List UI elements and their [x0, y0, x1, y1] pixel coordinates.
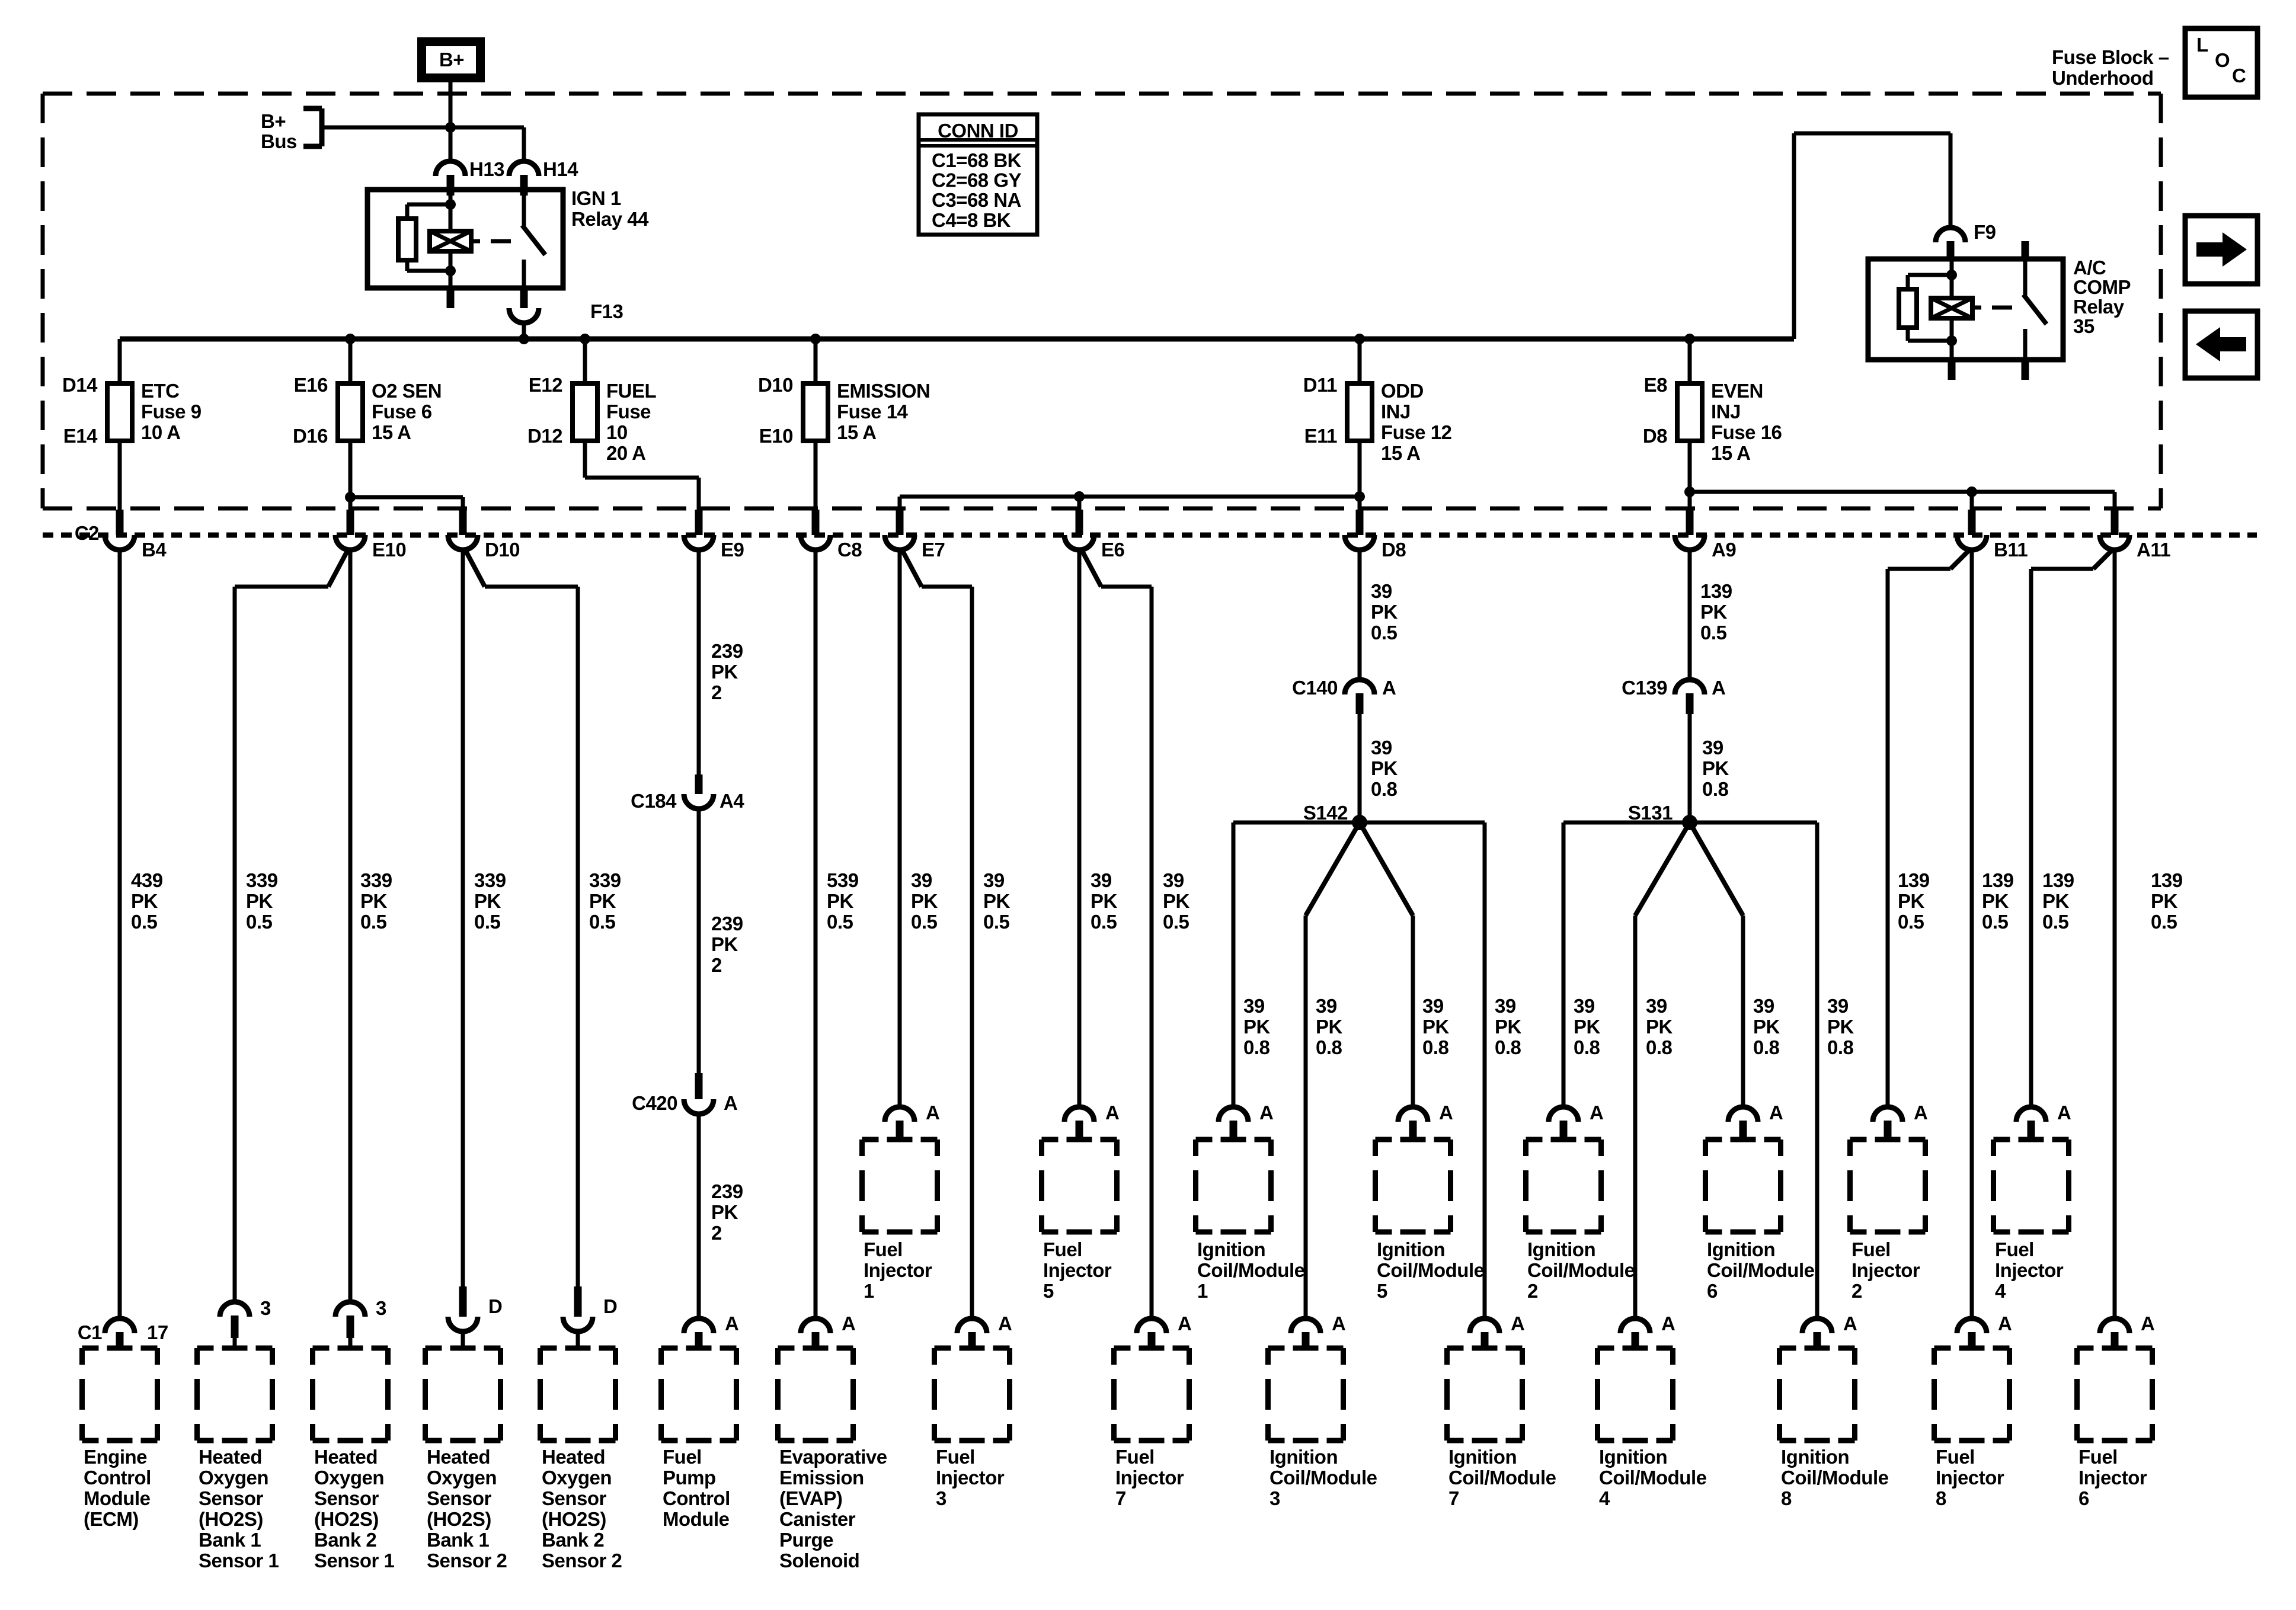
- pin stub AC coil ground: [1948, 360, 1956, 380]
- svg-text:ETC: ETC: [141, 380, 180, 402]
- svg-text:Module: Module: [84, 1487, 151, 1509]
- wire C139 to S131: [1688, 714, 1692, 822]
- svg-text:Coil/Module: Coil/Module: [1599, 1467, 1707, 1489]
- svg-text:D16: D16: [293, 425, 328, 447]
- wire F13 to bus: [522, 323, 526, 339]
- node bus fuse5: [1354, 334, 1365, 344]
- wire relay coil feed: [449, 190, 453, 231]
- svg-text:PK: PK: [2151, 890, 2178, 912]
- svg-text:339: 339: [360, 869, 392, 891]
- svg-text:0.5: 0.5: [474, 911, 501, 933]
- fuse F14_EMIS EMISSION: [803, 383, 828, 441]
- svg-text:0.8: 0.8: [1371, 778, 1398, 800]
- svg-text:8: 8: [1936, 1487, 1946, 1509]
- wire bus to fuse FUEL: [583, 339, 587, 383]
- svg-text:1: 1: [1197, 1280, 1208, 1302]
- svg-text:Engine: Engine: [84, 1446, 147, 1468]
- connector row pin A11: [2111, 510, 2119, 535]
- connector pin 3 of HO2S Bank 1 Sensor 1: [220, 1302, 250, 1317]
- wire E10 straight: [348, 550, 353, 1302]
- connector H14: [509, 161, 539, 176]
- svg-text:PK: PK: [246, 890, 273, 912]
- svg-text:0.5: 0.5: [1091, 911, 1117, 933]
- svg-text:Injector: Injector: [936, 1467, 1005, 1489]
- svg-text:E12: E12: [529, 374, 562, 396]
- svg-text:S142: S142: [1303, 802, 1348, 824]
- svg-text:B11: B11: [1994, 539, 2028, 561]
- wire D10 fan diagonal: [465, 550, 485, 587]
- wire E7 straight: [898, 550, 902, 1107]
- svg-text:H13: H13: [469, 158, 504, 180]
- svg-text:0.5: 0.5: [246, 911, 273, 933]
- svg-text:Fuel: Fuel: [663, 1446, 702, 1468]
- svg-text:Oxygen: Oxygen: [199, 1467, 268, 1489]
- svg-text:39: 39: [1422, 995, 1444, 1017]
- svg-text:PK: PK: [983, 890, 1011, 912]
- connector A of Ignition Coil/Module 2: [1549, 1107, 1578, 1122]
- component box Evaporative Emission (EVAP): [778, 1346, 795, 1351]
- svg-text:39: 39: [983, 869, 1005, 891]
- relay coil K2: [1931, 298, 1972, 318]
- connector row pin E7: [896, 510, 904, 535]
- svg-text:Ignition: Ignition: [1599, 1446, 1667, 1468]
- connector row pin E6: [1076, 510, 1083, 535]
- svg-text:2: 2: [711, 681, 722, 703]
- wire resistor bottom link: [405, 260, 410, 271]
- svg-text:Relay 44: Relay 44: [571, 208, 649, 230]
- wire ODD INJ fuse down: [1358, 441, 1362, 497]
- svg-text:PK: PK: [911, 890, 938, 912]
- svg-text:15 A: 15 A: [372, 421, 411, 443]
- svg-text:B4: B4: [142, 539, 167, 561]
- svg-text:C8: C8: [837, 539, 862, 561]
- wire E6 drop: [1077, 497, 1082, 511]
- connector C420 A: [695, 1073, 703, 1099]
- node ODD split: [1354, 491, 1365, 502]
- component box Fuel Injector 5: [1042, 1137, 1059, 1142]
- wire bus to fuse ETC: [118, 339, 122, 383]
- svg-text:PK: PK: [711, 661, 738, 683]
- wire O2 fuse down: [348, 441, 353, 497]
- svg-text:Injector: Injector: [1043, 1259, 1112, 1281]
- svg-text:39: 39: [1163, 869, 1184, 891]
- svg-text:0.8: 0.8: [1243, 1036, 1270, 1058]
- svg-text:D12: D12: [527, 425, 562, 447]
- component box Fuel Injector 4: [1994, 1137, 2010, 1142]
- svg-text:Relay: Relay: [2073, 296, 2125, 318]
- svg-text:A: A: [1511, 1313, 1524, 1334]
- connector C1 pin 17: [105, 1318, 135, 1333]
- connector H13: [436, 161, 465, 176]
- relay K1 IGN 1 Relay 44 box: [367, 190, 563, 288]
- svg-text:139: 139: [1898, 869, 1930, 891]
- svg-text:Fuel: Fuel: [1043, 1238, 1082, 1260]
- wire AC coil feed: [1950, 259, 1954, 298]
- fuse F9_ETC ETC: [107, 383, 132, 441]
- svg-text:PK: PK: [1982, 890, 2009, 912]
- svg-text:2: 2: [711, 954, 722, 976]
- relay coil K1: [430, 231, 471, 251]
- component box Fuel Injector 6: [2077, 1346, 2094, 1351]
- svg-text:Injector: Injector: [1851, 1259, 1920, 1281]
- node B11 tap: [1966, 486, 1977, 497]
- fuse F16_EVEN EVEN: [1677, 383, 1702, 441]
- svg-text:A/C: A/C: [2073, 257, 2106, 279]
- svg-text:C184: C184: [631, 790, 677, 812]
- component box HO2S Bank 1 Sensor 2: [426, 1346, 442, 1351]
- svg-text:C139: C139: [1622, 677, 1667, 699]
- component box Ignition Coil/Module 3: [1268, 1346, 1285, 1351]
- fuse F10_FUEL FUEL: [573, 383, 597, 441]
- svg-text:Coil/Module: Coil/Module: [1527, 1259, 1635, 1281]
- connector F13: [509, 308, 539, 323]
- arrow box right: [2185, 216, 2257, 284]
- svg-text:239: 239: [711, 1180, 743, 1202]
- svg-text:0.5: 0.5: [1898, 911, 1924, 933]
- svg-text:Ignition: Ignition: [1527, 1238, 1595, 1260]
- connector A of Fuel Injector: [957, 1318, 987, 1333]
- node AC coil bottom: [1946, 335, 1957, 346]
- svg-text:A: A: [1769, 1102, 1783, 1124]
- node relay coil bottom: [445, 265, 456, 276]
- svg-text:A: A: [2141, 1313, 2154, 1334]
- connector pin D of HO2S Bank 1 Sensor 2: [459, 1286, 467, 1317]
- svg-text:A: A: [1332, 1313, 1345, 1334]
- wire E9 col lower: [697, 1114, 701, 1318]
- svg-text:5: 5: [1043, 1280, 1054, 1302]
- svg-text:139: 139: [2042, 869, 2074, 891]
- svg-text:A: A: [1998, 1313, 2012, 1334]
- wire EMISSION fuse to C8: [814, 441, 818, 511]
- connector A of Ignition Coil/Module 6: [1728, 1107, 1758, 1122]
- svg-text:0.5: 0.5: [2151, 911, 2177, 933]
- svg-text:ODD: ODD: [1381, 380, 1424, 402]
- svg-text:PK: PK: [589, 890, 616, 912]
- svg-text:S131: S131: [1628, 802, 1673, 824]
- component box Ignition Coil/Module 5: [1376, 1137, 1392, 1142]
- wire to H13: [449, 127, 453, 161]
- wire ETC fuse to C2: [118, 441, 122, 511]
- svg-text:A: A: [842, 1313, 855, 1334]
- svg-text:0.5: 0.5: [827, 911, 853, 933]
- svg-text:339: 339: [474, 869, 506, 891]
- wire S142 branch far-left: [1233, 821, 1360, 825]
- wire B11 fan diagonal: [1950, 550, 1969, 569]
- svg-text:0.5: 0.5: [131, 911, 158, 933]
- svg-text:D8: D8: [1382, 539, 1406, 561]
- wire B+ down: [449, 82, 453, 127]
- svg-text:Fuel: Fuel: [1936, 1446, 1975, 1468]
- svg-text:1: 1: [864, 1280, 874, 1302]
- component box Fuel Injector 8: [1934, 1346, 1951, 1351]
- svg-text:Canister: Canister: [779, 1508, 856, 1530]
- svg-text:E8: E8: [1644, 374, 1668, 396]
- svg-text:PK: PK: [2042, 890, 2070, 912]
- svg-text:Sensor: Sensor: [314, 1487, 379, 1509]
- svg-text:A: A: [1105, 1102, 1119, 1124]
- component box HO2S Bank 2 Sensor 2: [541, 1346, 557, 1351]
- svg-text:A4: A4: [720, 790, 744, 812]
- svg-text:Control: Control: [663, 1487, 730, 1509]
- svg-text:D: D: [603, 1295, 617, 1317]
- wire C8 column: [814, 550, 818, 1318]
- wire B11 straight: [1970, 550, 1974, 1318]
- svg-text:39: 39: [1091, 869, 1112, 891]
- connector A of Fuel Injector: [1957, 1318, 1987, 1333]
- node bus fuse3: [580, 334, 590, 344]
- svg-text:PK: PK: [1700, 601, 1728, 623]
- svg-text:0.8: 0.8: [1495, 1036, 1521, 1058]
- svg-text:(HO2S): (HO2S): [427, 1508, 491, 1530]
- wire S142 branch mid-left: [1306, 822, 1360, 916]
- svg-text:0.5: 0.5: [2042, 911, 2069, 933]
- wire S142 branch mid-right: [1360, 822, 1413, 916]
- svg-text:C: C: [2232, 65, 2246, 87]
- svg-text:B+: B+: [439, 49, 464, 71]
- svg-text:Fuel: Fuel: [864, 1238, 903, 1260]
- svg-text:339: 339: [246, 869, 278, 891]
- connector C139 A: [1675, 680, 1705, 694]
- wire E7 fan diagonal: [902, 550, 922, 587]
- svg-text:0.5: 0.5: [1163, 911, 1189, 933]
- svg-text:CONN ID: CONN ID: [938, 120, 1018, 142]
- svg-text:Injector: Injector: [864, 1259, 932, 1281]
- svg-text:Coil/Module: Coil/Module: [1448, 1467, 1556, 1489]
- svg-text:3: 3: [260, 1297, 271, 1319]
- svg-text:Bank 2: Bank 2: [542, 1529, 604, 1551]
- svg-text:Coil/Module: Coil/Module: [1781, 1467, 1889, 1489]
- component box Ignition Coil/Module 6: [1706, 1137, 1722, 1142]
- svg-text:A: A: [1382, 677, 1396, 699]
- svg-text:PK: PK: [474, 890, 501, 912]
- svg-text:A: A: [1661, 1313, 1675, 1334]
- svg-text:39: 39: [1702, 737, 1723, 758]
- svg-text:0.5: 0.5: [911, 911, 938, 933]
- svg-text:0.5: 0.5: [589, 911, 616, 933]
- LOC box: [2185, 28, 2257, 97]
- svg-text:2: 2: [1527, 1280, 1538, 1302]
- svg-text:D14: D14: [62, 374, 98, 396]
- wire S131 branch mid-left: [1635, 822, 1690, 916]
- wire E6 fan diagonal: [1082, 550, 1101, 587]
- svg-text:39: 39: [1316, 995, 1337, 1017]
- svg-text:Ignition: Ignition: [1781, 1446, 1849, 1468]
- svg-text:A: A: [1439, 1102, 1453, 1124]
- svg-text:239: 239: [711, 913, 743, 934]
- svg-text:0.8: 0.8: [1316, 1036, 1342, 1058]
- wire B+ bus horizontal: [322, 126, 524, 130]
- component box HO2S Bank 1 Sensor 1: [197, 1346, 214, 1351]
- node bus fuse6: [1684, 334, 1695, 344]
- wire E10 drop: [348, 497, 353, 511]
- svg-text:39: 39: [1827, 995, 1849, 1017]
- svg-text:Heated: Heated: [542, 1446, 605, 1468]
- svg-text:(HO2S): (HO2S): [314, 1508, 379, 1530]
- relay K2 A/C COMP Relay 35 box: [1868, 259, 2063, 360]
- wire S131 branch far-right: [1690, 821, 1817, 825]
- svg-text:Fuse 12: Fuse 12: [1381, 421, 1452, 443]
- svg-text:Bank 2: Bank 2: [314, 1529, 376, 1551]
- connector F9: [1936, 228, 1965, 242]
- svg-text:39: 39: [1371, 580, 1392, 602]
- wire bus to fuse EMISSION: [814, 339, 818, 383]
- svg-text:D8: D8: [1643, 425, 1667, 447]
- fuse F6_O2 O2 SEN: [338, 383, 363, 441]
- relay switch fixed contact: [522, 190, 526, 227]
- fuse block underhood dashed border: [43, 92, 2161, 96]
- svg-text:E16: E16: [294, 374, 328, 396]
- svg-text:3: 3: [376, 1297, 386, 1319]
- connector row pin A9: [1686, 510, 1694, 535]
- wire S131 branch far-left: [1563, 821, 1690, 825]
- svg-text:O2 SEN: O2 SEN: [372, 380, 442, 402]
- svg-text:INJ: INJ: [1711, 401, 1741, 422]
- wire EVEN split horizontal: [1690, 490, 2115, 494]
- svg-text:0.5: 0.5: [1982, 911, 2009, 933]
- svg-text:C140: C140: [1292, 677, 1338, 699]
- component box Engine Control Module: [82, 1346, 99, 1351]
- svg-text:7: 7: [1448, 1487, 1459, 1509]
- svg-text:Ignition: Ignition: [1707, 1238, 1775, 1260]
- svg-text:Fuse 6: Fuse 6: [372, 401, 432, 422]
- pin 87 stub: [520, 288, 528, 308]
- AC pin stub lower: [2022, 360, 2029, 380]
- wire bus to fuse O2 SEN: [348, 339, 353, 383]
- svg-text:Sensor 1: Sensor 1: [314, 1550, 395, 1571]
- svg-text:139: 139: [1700, 580, 1732, 602]
- svg-text:0.8: 0.8: [1422, 1036, 1449, 1058]
- component box HO2S Bank 2 Sensor 1: [313, 1346, 330, 1351]
- svg-text:C1: C1: [78, 1321, 102, 1343]
- resistor R relay coil suppression: [398, 219, 416, 260]
- svg-text:E10: E10: [372, 539, 406, 561]
- svg-text:Evaporative: Evaporative: [779, 1446, 887, 1468]
- wire D8 drop: [1358, 497, 1362, 511]
- fuse F12_ODD ODD: [1347, 383, 1372, 441]
- svg-text:20 A: 20 A: [606, 442, 645, 464]
- wire E9 column: [697, 550, 701, 774]
- svg-text:PK: PK: [1422, 1016, 1450, 1038]
- node AC coil top: [1946, 270, 1957, 280]
- svg-text:A: A: [1259, 1102, 1273, 1124]
- svg-text:A9: A9: [1712, 539, 1736, 561]
- svg-text:A: A: [725, 1313, 738, 1334]
- wire A11 fan diagonal: [2093, 550, 2112, 569]
- svg-text:C2=68 GY: C2=68 GY: [932, 169, 1021, 191]
- splice S142: [1352, 815, 1367, 830]
- connector C140 A: [1345, 680, 1374, 694]
- connector A of Evaporative Emission: [801, 1318, 830, 1333]
- svg-text:PK: PK: [1316, 1016, 1343, 1038]
- svg-text:4: 4: [1995, 1280, 2006, 1302]
- wire D8 column: [1358, 550, 1362, 677]
- svg-text:Ignition: Ignition: [1377, 1238, 1445, 1260]
- svg-text:Solenoid: Solenoid: [779, 1550, 859, 1571]
- pin 85 stub below relay: [447, 288, 455, 308]
- svg-text:F13: F13: [590, 300, 623, 322]
- component box Fuel Injector 2: [1850, 1137, 1867, 1142]
- connector A of Ignition Coil/Module: [1802, 1318, 1832, 1333]
- svg-text:10: 10: [606, 421, 628, 443]
- svg-text:Sensor: Sensor: [542, 1487, 607, 1509]
- wire C140 to S142: [1358, 714, 1362, 822]
- connector A of Fuel Injector 1: [885, 1107, 914, 1122]
- svg-text:(HO2S): (HO2S): [199, 1508, 263, 1530]
- svg-text:PK: PK: [1898, 890, 1925, 912]
- svg-text:PK: PK: [360, 890, 388, 912]
- svg-text:A: A: [998, 1313, 1012, 1334]
- relay actuation dashed link: [471, 239, 480, 244]
- node bus fuse2: [345, 334, 356, 344]
- connector A of Fuel Injector 4: [2016, 1107, 2046, 1122]
- svg-text:EMISSION: EMISSION: [837, 380, 930, 402]
- node E6 tap: [1074, 491, 1085, 502]
- connector row pin D10: [459, 510, 467, 535]
- wire ODD split horizontal: [900, 495, 1360, 499]
- component box Ignition Coil/Module 4: [1598, 1346, 1614, 1351]
- connector A of Ignition Coil/Module 5: [1398, 1107, 1428, 1122]
- svg-text:PK: PK: [1827, 1016, 1854, 1038]
- svg-text:139: 139: [1982, 869, 2014, 891]
- connector A of Fuel Injector: [1137, 1318, 1166, 1333]
- svg-text:39: 39: [1753, 995, 1774, 1017]
- svg-text:FUEL: FUEL: [606, 380, 657, 402]
- svg-text:0.5: 0.5: [1371, 622, 1398, 644]
- AC relay dashed link: [1972, 306, 1981, 310]
- wire AC resistor bottom: [1906, 328, 1910, 341]
- svg-text:4: 4: [1599, 1487, 1610, 1509]
- svg-text:39: 39: [1574, 995, 1595, 1017]
- wire S142 branch far-right: [1360, 821, 1485, 825]
- svg-text:7: 7: [1115, 1487, 1126, 1509]
- svg-text:PK: PK: [1702, 757, 1729, 779]
- svg-text:C1=68 BK: C1=68 BK: [932, 149, 1022, 171]
- component box Ignition Coil/Module 2: [1526, 1137, 1543, 1142]
- svg-text:Ignition: Ignition: [1197, 1238, 1265, 1260]
- B+ power terminal: [417, 37, 485, 82]
- svg-text:B+: B+: [261, 110, 286, 132]
- svg-text:PK: PK: [131, 890, 158, 912]
- svg-text:E9: E9: [721, 539, 744, 561]
- svg-text:Injector: Injector: [1936, 1467, 2004, 1489]
- connector A of Fuel Injector 5: [1064, 1107, 1094, 1122]
- svg-text:PK: PK: [1091, 890, 1118, 912]
- CONN ID table: [919, 114, 1037, 235]
- svg-text:Injector: Injector: [1115, 1467, 1184, 1489]
- relay switch lower contact: [522, 260, 526, 288]
- svg-text:39: 39: [911, 869, 932, 891]
- wire resistor top link: [407, 203, 450, 207]
- connector row pin E9: [695, 510, 703, 535]
- svg-text:5: 5: [1377, 1280, 1387, 1302]
- svg-text:Sensor 1: Sensor 1: [199, 1550, 279, 1571]
- wire A9 drop: [1688, 492, 1692, 511]
- svg-text:COMP: COMP: [2073, 276, 2131, 298]
- wire E9 col mid: [697, 809, 701, 1073]
- svg-text:15 A: 15 A: [1381, 442, 1420, 464]
- connector row pin B4: [116, 510, 124, 535]
- svg-text:Sensor: Sensor: [199, 1487, 264, 1509]
- svg-text:E11: E11: [1304, 425, 1338, 447]
- svg-text:Fuse 16: Fuse 16: [1711, 421, 1782, 443]
- connector A of Ignition Coil/Module: [1620, 1318, 1650, 1333]
- component box Ignition Coil/Module 8: [1780, 1346, 1796, 1351]
- wire AC resistor top link: [1908, 273, 1952, 277]
- component box Fuel Pump Control: [661, 1346, 678, 1351]
- svg-text:Bank 1: Bank 1: [427, 1529, 489, 1551]
- svg-text:Fuel: Fuel: [2078, 1446, 2118, 1468]
- svg-text:A: A: [724, 1092, 737, 1114]
